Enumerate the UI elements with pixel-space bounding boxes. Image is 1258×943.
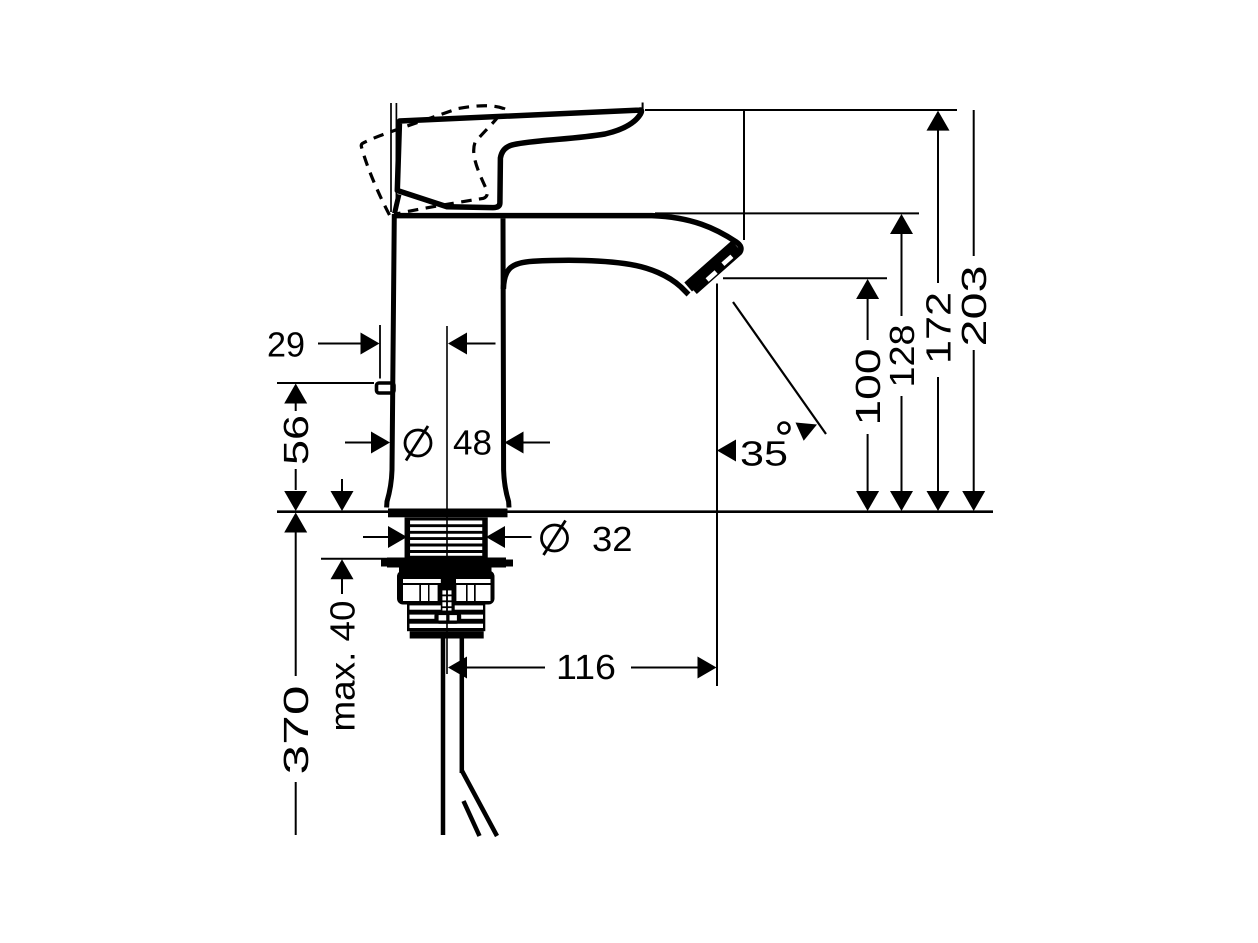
dim d32 diameter symbol slash	[544, 521, 566, 556]
dim d32 arrow right	[388, 526, 407, 548]
dim max40 arrow up at washer	[331, 559, 354, 579]
hose bend inner	[464, 801, 480, 836]
hose bend outer	[462, 771, 497, 837]
hose right wall	[460, 638, 465, 773]
vertical ref x717	[716, 284, 718, 687]
dim 370 stem upper	[295, 533, 297, 677]
extension line above body right	[395, 103, 397, 212]
svg-text:35: 35	[740, 435, 788, 474]
dim max40 arrow down at deck	[331, 491, 354, 511]
tip extension tick	[642, 103, 644, 113]
dim 203 arrow down	[962, 491, 985, 511]
svg-text:128: 128	[883, 325, 922, 388]
dim 56 arrow down	[284, 491, 307, 511]
nut white slit left	[403, 579, 441, 583]
35 degree diagonal	[733, 302, 826, 434]
dim d32 left leader	[363, 536, 389, 538]
aerator white notch 1	[721, 255, 733, 266]
dim 29 arrow left at centerline	[448, 333, 467, 355]
washer main body	[387, 558, 506, 568]
tick line x380 for 29	[379, 325, 381, 379]
dim max40 stem above deck	[341, 479, 343, 492]
nut bottom cap	[410, 631, 484, 638]
deck line	[277, 510, 993, 513]
svg-text:max. 40: max. 40	[324, 601, 363, 732]
dim 116 right line	[631, 667, 698, 669]
dim 128 arrow down	[890, 491, 913, 511]
ref line y558.8	[321, 558, 387, 560]
center axis line	[446, 326, 448, 674]
svg-text:172: 172	[920, 292, 959, 364]
dim 172 stem upper	[937, 130, 939, 283]
body right edge	[503, 218, 509, 507]
dim 203 stem lower	[973, 350, 975, 492]
mounting nut collar	[399, 568, 492, 576]
dim 29 arrow right	[361, 333, 380, 355]
dim 172 stem lower	[937, 377, 939, 492]
washer wide tab plate	[381, 560, 513, 567]
body left edge	[387, 214, 395, 508]
dim 100 stem lower	[867, 434, 869, 492]
central rod	[441, 567, 455, 611]
dim line y213 for 128	[655, 212, 919, 214]
dim 56 stem lower	[295, 469, 297, 490]
hose left wall	[441, 638, 446, 835]
svg-text:116: 116	[556, 648, 616, 687]
dim 203 stem upper	[973, 110, 975, 256]
base plate	[388, 509, 508, 518]
dim 35deg arrow left	[717, 440, 736, 462]
shank thread lines	[408, 519, 484, 557]
rod nut white windows	[439, 615, 447, 620]
aerator black band	[684, 241, 739, 292]
dim 116 arrow right	[698, 657, 717, 679]
dim 172 arrow down	[927, 491, 950, 511]
faucet handle (solid outline)	[397, 110, 641, 208]
dim 35deg degree ring	[779, 423, 790, 434]
dim 29 tail line	[467, 343, 496, 345]
dim 29 leader line	[318, 343, 364, 345]
dim 56 arrow up	[284, 384, 307, 404]
dim d48 arrow right	[371, 432, 390, 454]
nut white slit right	[456, 579, 491, 583]
dim 100 arrow down	[856, 491, 879, 511]
dim 370 stem lower	[295, 782, 297, 835]
dim 116 left line	[467, 667, 545, 669]
nut castellation windows	[403, 585, 419, 601]
spout underside curve	[503, 260, 688, 294]
dim d48 arrow left	[505, 432, 524, 454]
dim 172 arrow up	[927, 111, 950, 131]
dim 100 arrow up	[856, 279, 879, 299]
faucet handle chin arc	[395, 195, 399, 214]
dim 128 stem lower	[901, 396, 903, 492]
dim 128 arrow up	[890, 214, 913, 234]
svg-text:370: 370	[277, 686, 316, 775]
dim 35deg arrow on diagonal	[796, 423, 818, 441]
dim 128 stem upper	[901, 234, 903, 317]
dim d48 left leader	[345, 442, 372, 444]
dim line y278 for 100	[723, 277, 887, 279]
set screw pin	[377, 383, 395, 393]
aerator white notch 2	[706, 270, 718, 281]
dim d32 right leader	[505, 536, 532, 538]
svg-text:203: 203	[955, 266, 994, 347]
dim d48 diameter symbol circle	[405, 430, 431, 456]
dashed handle raised position	[361, 106, 503, 215]
dim max40 stem below	[341, 579, 343, 594]
dim 100 stem upper	[867, 299, 869, 341]
nut ribbed lower section	[407, 604, 485, 631]
threaded shank right wall	[482, 518, 488, 559]
rib white stripes	[410, 605, 484, 609]
svg-text:32: 32	[592, 520, 633, 559]
dim d48 right leader	[523, 442, 550, 444]
dim d48 diameter symbol slash	[406, 426, 428, 461]
dim 116 arrow left	[448, 657, 467, 679]
dim 370 arrow up	[284, 513, 307, 533]
dim 56 stem upper	[295, 403, 297, 411]
threaded shank left wall	[405, 518, 411, 559]
svg-text:56: 56	[277, 415, 316, 465]
spout top edge and tip face	[394, 216, 741, 292]
mounting nut body	[397, 571, 495, 605]
ref line y383	[277, 382, 374, 384]
extension line above body left	[390, 103, 392, 212]
rod nut	[434, 611, 461, 624]
top dim line 172/203	[645, 109, 957, 111]
vertical ref x744	[743, 110, 745, 240]
dim d32 diameter symbol circle	[542, 525, 568, 551]
svg-text:48: 48	[453, 424, 492, 463]
svg-text:29: 29	[267, 326, 305, 365]
dim d32 arrow left	[486, 526, 505, 548]
